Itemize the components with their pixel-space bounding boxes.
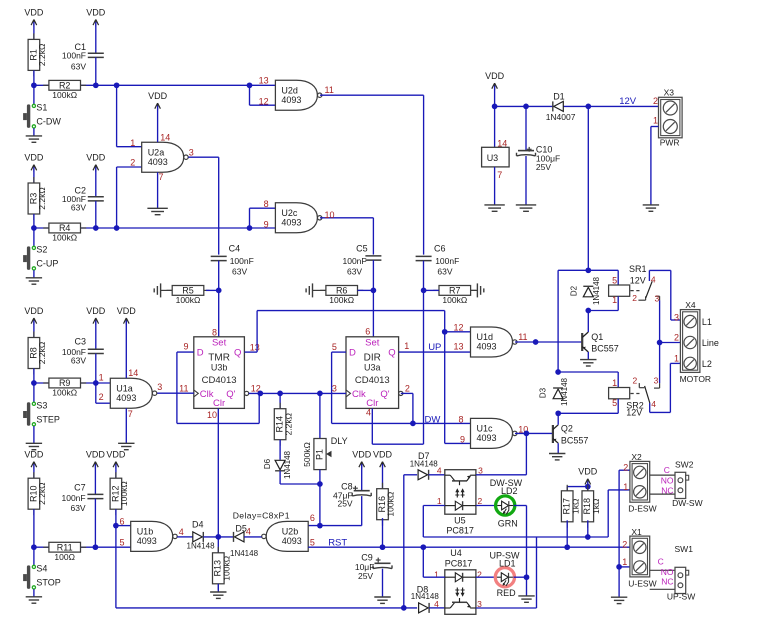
svg-text:4: 4 xyxy=(434,599,439,609)
svg-text:12V: 12V xyxy=(619,96,637,107)
svg-text:RST: RST xyxy=(328,537,347,548)
svg-text:SW1: SW1 xyxy=(675,544,694,554)
svg-text:1: 1 xyxy=(130,138,135,148)
svg-text:11: 11 xyxy=(179,384,188,394)
svg-text:VDD: VDD xyxy=(373,449,393,459)
svg-text:X3: X3 xyxy=(664,87,675,97)
svg-text:U3b: U3b xyxy=(211,362,228,372)
svg-text:63V: 63V xyxy=(347,267,362,277)
svg-text:3: 3 xyxy=(674,312,679,322)
svg-text:2.2kΩ: 2.2kΩ xyxy=(37,482,47,504)
svg-text:STOP: STOP xyxy=(36,578,60,588)
svg-text:3: 3 xyxy=(157,382,162,392)
svg-text:C7: C7 xyxy=(74,483,86,493)
svg-text:D6: D6 xyxy=(263,458,272,469)
svg-text:100kΩ: 100kΩ xyxy=(329,295,354,305)
svg-text:1: 1 xyxy=(434,569,439,579)
svg-text:5: 5 xyxy=(332,342,337,352)
svg-text:Set: Set xyxy=(212,338,227,349)
svg-text:11: 11 xyxy=(325,85,334,95)
svg-text:VDD: VDD xyxy=(106,449,126,459)
svg-text:2: 2 xyxy=(623,463,628,473)
svg-text:25V: 25V xyxy=(358,571,373,581)
svg-text:C: C xyxy=(664,465,670,475)
svg-text:2: 2 xyxy=(477,569,482,579)
svg-text:2.2kΩ: 2.2kΩ xyxy=(37,187,47,209)
svg-text:100kΩ: 100kΩ xyxy=(52,90,77,100)
svg-text:3: 3 xyxy=(478,466,483,476)
svg-text:U5: U5 xyxy=(454,515,466,525)
svg-text:VDD: VDD xyxy=(86,449,106,459)
svg-text:1: 1 xyxy=(612,295,617,305)
svg-text:C-UP: C-UP xyxy=(36,259,58,269)
svg-text:C4: C4 xyxy=(229,244,241,254)
svg-text:9: 9 xyxy=(264,220,269,230)
svg-text:U4: U4 xyxy=(450,548,462,558)
svg-text:D4: D4 xyxy=(192,520,204,530)
svg-text:63V: 63V xyxy=(71,61,86,71)
svg-text:10: 10 xyxy=(325,210,335,220)
svg-text:Q': Q' xyxy=(380,389,389,400)
svg-text:100kΩ: 100kΩ xyxy=(222,556,232,581)
svg-text:3: 3 xyxy=(189,148,194,158)
svg-text:C3: C3 xyxy=(74,337,86,347)
svg-text:C6: C6 xyxy=(434,244,446,254)
svg-text:100kΩ: 100kΩ xyxy=(442,295,467,305)
svg-text:100Ω: 100Ω xyxy=(54,552,75,562)
svg-text:U3: U3 xyxy=(487,153,499,163)
svg-text:VDD: VDD xyxy=(352,449,372,459)
svg-text:VDD: VDD xyxy=(24,306,44,316)
svg-text:1: 1 xyxy=(653,116,658,126)
svg-text:VDD: VDD xyxy=(117,306,137,316)
svg-text:63V: 63V xyxy=(71,203,86,213)
svg-text:4: 4 xyxy=(366,408,371,418)
svg-text:63V: 63V xyxy=(232,267,247,277)
svg-text:14: 14 xyxy=(128,368,138,378)
svg-text:6: 6 xyxy=(365,326,370,336)
svg-text:VDD: VDD xyxy=(24,7,44,17)
svg-text:Clr: Clr xyxy=(213,398,225,409)
svg-text:2: 2 xyxy=(99,392,104,402)
svg-text:VDD: VDD xyxy=(86,7,106,17)
svg-text:13: 13 xyxy=(250,342,260,352)
svg-text:VDD: VDD xyxy=(86,153,106,163)
svg-text:S4: S4 xyxy=(36,564,47,574)
svg-text:13: 13 xyxy=(453,342,463,352)
svg-text:100nF: 100nF xyxy=(435,256,459,266)
svg-text:Clk: Clk xyxy=(200,389,214,400)
svg-text:1N4148: 1N4148 xyxy=(560,377,569,406)
svg-text:5: 5 xyxy=(612,398,617,408)
svg-text:Delay=C8xP1: Delay=C8xP1 xyxy=(233,511,290,521)
svg-text:L1: L1 xyxy=(702,317,712,327)
svg-text:4: 4 xyxy=(179,527,184,537)
svg-text:Q2: Q2 xyxy=(561,424,573,434)
svg-text:Line: Line xyxy=(702,338,719,348)
svg-text:Clk: Clk xyxy=(352,389,366,400)
svg-text:SW2: SW2 xyxy=(675,460,694,470)
svg-text:1kΩ: 1kΩ xyxy=(591,499,601,514)
svg-text:4093: 4093 xyxy=(281,95,301,105)
svg-text:4: 4 xyxy=(651,274,656,284)
svg-text:MOTOR: MOTOR xyxy=(680,374,711,384)
svg-text:D3: D3 xyxy=(539,387,548,398)
svg-text:L2: L2 xyxy=(702,359,712,369)
svg-text:1N4148: 1N4148 xyxy=(187,542,216,551)
svg-text:7: 7 xyxy=(497,170,502,180)
svg-text:U3a: U3a xyxy=(364,362,381,372)
svg-text:25V: 25V xyxy=(337,499,352,509)
svg-text:NO: NO xyxy=(661,476,674,486)
svg-text:100nF: 100nF xyxy=(342,256,366,266)
svg-text:2.2kΩ: 2.2kΩ xyxy=(37,44,47,66)
svg-text:7: 7 xyxy=(128,409,133,419)
svg-text:4093: 4093 xyxy=(137,536,157,546)
svg-text:14: 14 xyxy=(160,133,170,143)
svg-text:RED: RED xyxy=(497,588,517,598)
svg-text:1N4007: 1N4007 xyxy=(546,112,576,122)
svg-text:NC: NC xyxy=(661,485,673,495)
svg-text:CD4013: CD4013 xyxy=(202,375,237,386)
svg-text:6: 6 xyxy=(119,517,124,527)
svg-text:S2: S2 xyxy=(36,245,47,255)
svg-text:BC557: BC557 xyxy=(561,436,589,446)
svg-text:3: 3 xyxy=(332,383,337,393)
svg-text:D-ESW: D-ESW xyxy=(628,504,656,514)
svg-text:S3: S3 xyxy=(36,401,47,411)
svg-text:NO: NO xyxy=(661,567,674,577)
svg-text:C5: C5 xyxy=(356,244,368,254)
svg-text:100nF: 100nF xyxy=(230,256,254,266)
svg-text:UP-SW: UP-SW xyxy=(667,592,695,602)
svg-text:VDD: VDD xyxy=(485,71,505,81)
svg-text:C-DW: C-DW xyxy=(36,117,61,127)
svg-text:1: 1 xyxy=(437,496,442,506)
svg-text:100nF: 100nF xyxy=(61,493,85,503)
svg-text:8: 8 xyxy=(212,328,217,338)
svg-text:5: 5 xyxy=(119,537,124,547)
svg-text:11: 11 xyxy=(518,332,527,342)
svg-text:1: 1 xyxy=(99,372,104,382)
svg-text:Set: Set xyxy=(365,338,380,349)
svg-text:4: 4 xyxy=(651,399,656,409)
svg-text:D: D xyxy=(349,348,356,359)
svg-text:VDD: VDD xyxy=(578,467,598,477)
svg-text:12V: 12V xyxy=(630,276,646,286)
svg-text:Q1: Q1 xyxy=(591,332,603,342)
svg-text:Q: Q xyxy=(234,348,241,359)
svg-text:UP: UP xyxy=(428,342,441,353)
svg-text:SR1: SR1 xyxy=(629,264,647,274)
svg-text:LD1: LD1 xyxy=(499,559,516,569)
svg-text:VDD: VDD xyxy=(24,449,44,459)
svg-text:D2: D2 xyxy=(570,285,579,296)
svg-text:X4: X4 xyxy=(685,300,696,310)
svg-text:VDD: VDD xyxy=(24,153,44,163)
svg-text:12: 12 xyxy=(259,96,269,106)
svg-text:S1: S1 xyxy=(36,103,47,113)
svg-text:NC: NC xyxy=(661,577,673,587)
svg-text:4093: 4093 xyxy=(281,217,301,227)
svg-text:1N4148: 1N4148 xyxy=(592,276,601,305)
svg-text:100kΩ: 100kΩ xyxy=(386,492,396,517)
svg-text:3: 3 xyxy=(654,376,659,386)
svg-text:BC557: BC557 xyxy=(591,344,619,354)
svg-text:GRN: GRN xyxy=(498,518,518,528)
svg-text:2: 2 xyxy=(632,293,637,303)
svg-text:4093: 4093 xyxy=(477,433,497,443)
svg-text:2.2kΩ: 2.2kΩ xyxy=(283,413,293,435)
svg-text:2: 2 xyxy=(405,384,410,394)
svg-text:100kΩ: 100kΩ xyxy=(119,481,129,506)
svg-text:PWR: PWR xyxy=(660,138,680,148)
svg-text:PC817: PC817 xyxy=(445,559,473,569)
svg-text:500kΩ: 500kΩ xyxy=(302,442,312,467)
svg-text:4: 4 xyxy=(437,465,442,475)
svg-text:100nF: 100nF xyxy=(62,50,86,60)
svg-text:9: 9 xyxy=(183,342,188,352)
svg-text:2: 2 xyxy=(130,157,135,167)
svg-text:D: D xyxy=(197,348,204,359)
svg-text:P1: P1 xyxy=(315,449,325,460)
svg-text:100kΩ: 100kΩ xyxy=(52,388,77,398)
svg-text:63V: 63V xyxy=(437,267,452,277)
svg-text:LD2: LD2 xyxy=(501,486,518,496)
svg-text:CD4013: CD4013 xyxy=(355,375,390,386)
svg-text:U-ESW: U-ESW xyxy=(628,579,656,589)
svg-text:2: 2 xyxy=(622,540,627,550)
svg-text:4093: 4093 xyxy=(116,393,136,403)
svg-text:2: 2 xyxy=(478,496,483,506)
svg-text:2: 2 xyxy=(653,96,658,106)
svg-text:1: 1 xyxy=(623,482,628,492)
svg-text:2.2kΩ: 2.2kΩ xyxy=(37,342,47,364)
svg-text:D1: D1 xyxy=(553,91,565,101)
svg-text:1: 1 xyxy=(404,341,409,351)
svg-text:14: 14 xyxy=(497,139,507,149)
svg-text:13: 13 xyxy=(259,76,269,86)
svg-text:2: 2 xyxy=(632,376,637,386)
svg-text:63V: 63V xyxy=(71,356,86,366)
svg-text:1N4148: 1N4148 xyxy=(410,460,439,469)
svg-text:C: C xyxy=(658,556,664,566)
svg-text:4093: 4093 xyxy=(282,536,302,546)
svg-text:8: 8 xyxy=(264,199,269,209)
svg-text:PC817: PC817 xyxy=(446,526,474,536)
svg-text:DW: DW xyxy=(424,414,440,425)
svg-text:1N4148: 1N4148 xyxy=(283,450,292,479)
svg-text:10: 10 xyxy=(207,410,217,420)
svg-text:100kΩ: 100kΩ xyxy=(176,295,201,305)
svg-text:X1: X1 xyxy=(631,527,642,537)
svg-text:7: 7 xyxy=(159,172,164,182)
svg-text:5: 5 xyxy=(612,276,617,286)
svg-text:100kΩ: 100kΩ xyxy=(52,233,77,243)
svg-text:STEP: STEP xyxy=(36,414,60,424)
svg-text:25V: 25V xyxy=(536,162,551,172)
svg-text:Q': Q' xyxy=(226,389,235,400)
svg-text:12V: 12V xyxy=(626,407,642,417)
svg-text:4093: 4093 xyxy=(148,157,168,167)
svg-text:63V: 63V xyxy=(70,503,85,513)
svg-text:12: 12 xyxy=(453,322,463,332)
svg-text:1: 1 xyxy=(622,557,627,567)
svg-text:Q: Q xyxy=(388,348,395,359)
svg-text:1: 1 xyxy=(674,353,679,363)
svg-text:5: 5 xyxy=(310,537,315,547)
svg-text:X2: X2 xyxy=(631,452,642,462)
svg-text:1: 1 xyxy=(612,378,617,388)
svg-text:2: 2 xyxy=(674,332,679,342)
svg-text:DLY: DLY xyxy=(331,436,348,446)
svg-text:D5: D5 xyxy=(235,524,247,534)
svg-text:VDD: VDD xyxy=(86,306,106,316)
svg-text:VDD: VDD xyxy=(148,91,168,101)
svg-text:1N4148: 1N4148 xyxy=(230,549,259,558)
svg-text:DW-SW: DW-SW xyxy=(672,498,703,508)
svg-text:3: 3 xyxy=(655,294,660,304)
svg-text:4093: 4093 xyxy=(477,342,497,352)
svg-text:9: 9 xyxy=(460,434,465,444)
svg-text:6: 6 xyxy=(310,513,315,523)
svg-text:1kΩ: 1kΩ xyxy=(570,499,580,514)
svg-text:8: 8 xyxy=(458,414,463,424)
